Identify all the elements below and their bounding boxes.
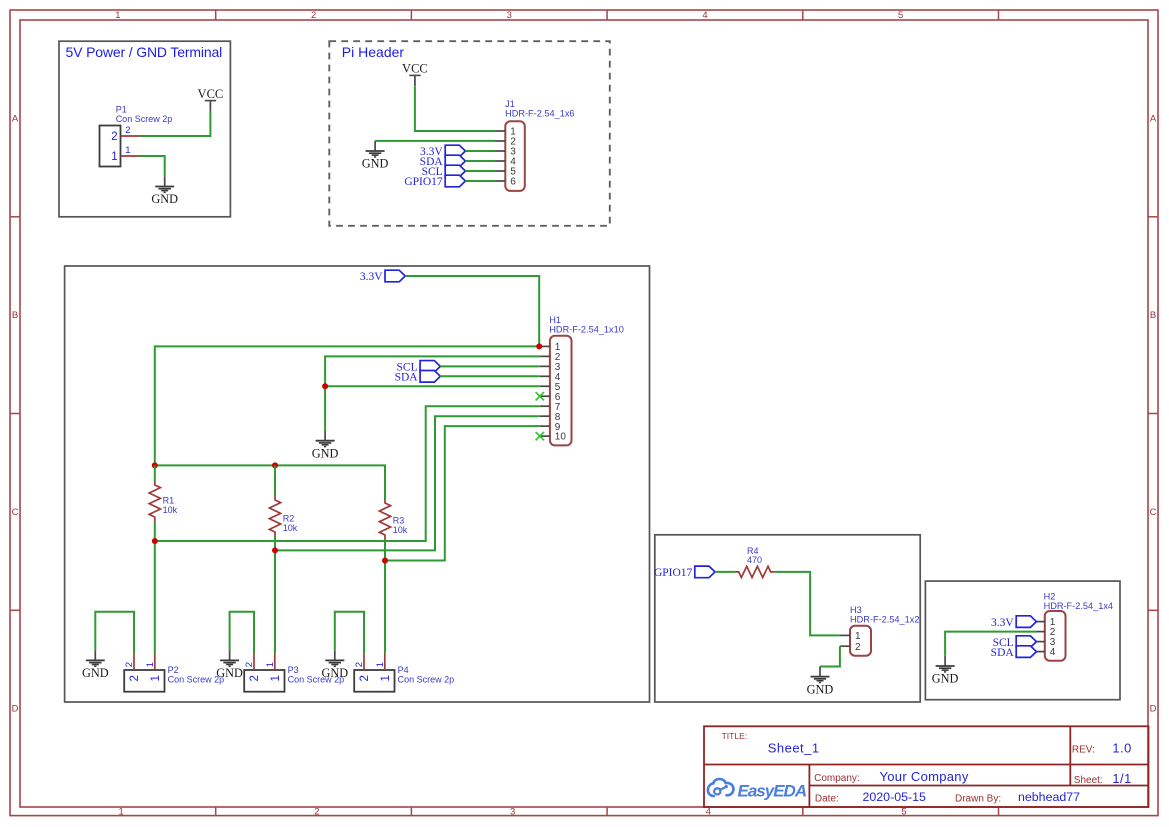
svg-text:A: A <box>12 114 19 125</box>
svg-text:2: 2 <box>125 125 130 136</box>
svg-text:R2: R2 <box>283 514 295 524</box>
svg-text:Your Company: Your Company <box>880 769 969 784</box>
svg-text:HDR-F-2.54_1x6: HDR-F-2.54_1x6 <box>505 109 574 119</box>
ground (P3) <box>216 650 243 680</box>
ground (P4) <box>321 650 348 680</box>
svg-text:GND: GND <box>82 666 109 680</box>
svg-text:2: 2 <box>124 662 135 667</box>
svg-text:P3: P3 <box>288 665 299 675</box>
header H3 HDR-F-2.54_1x2 <box>840 605 920 656</box>
svg-text:VCC: VCC <box>198 87 224 101</box>
svg-text:1: 1 <box>119 806 124 817</box>
svg-text:2: 2 <box>244 662 255 667</box>
svg-text:HDR-F-2.54_1x10: HDR-F-2.54_1x10 <box>549 325 624 335</box>
resistor R3 10k <box>379 499 407 539</box>
svg-text:Pi Header: Pi Header <box>342 44 405 60</box>
svg-text:3.3V: 3.3V <box>991 617 1014 629</box>
wire R1 to P2 pin1 <box>154 521 156 653</box>
svg-text:Con Screw 2p: Con Screw 2p <box>116 114 173 124</box>
junction H1 pin1 / 3.3V <box>536 343 542 349</box>
svg-text:C: C <box>12 507 19 518</box>
svg-text:TITLE:: TITLE: <box>722 731 748 741</box>
svg-text:B: B <box>12 310 18 321</box>
section box: GPIO17 / H3 <box>655 535 920 702</box>
svg-text:nebhead77: nebhead77 <box>1018 790 1080 804</box>
wire H1 pin5 net <box>325 385 540 387</box>
netflag 3.3V (H2 box) <box>991 616 1036 629</box>
svg-text:1.0: 1.0 <box>1112 740 1131 755</box>
wire 3.3V top rail <box>155 465 385 475</box>
resistor R1 10k <box>149 481 177 521</box>
svg-text:GND: GND <box>151 192 178 206</box>
wire SCL to H1 pin3 <box>440 365 540 367</box>
connector P1 Con Screw 2p <box>100 105 173 167</box>
connector P3 Con Screw 2p <box>244 653 344 692</box>
wire H3 pin2 to GND <box>820 646 840 666</box>
wire H1 pin2 to GND <box>325 356 540 430</box>
svg-text:1: 1 <box>375 662 386 667</box>
header H2 HDR-F-2.54_1x4 <box>1037 592 1114 661</box>
power flag VCC (5V box) <box>198 87 224 112</box>
resistor R2 10k <box>269 496 297 536</box>
title block texts <box>722 731 1132 804</box>
svg-text:P2: P2 <box>168 665 179 675</box>
svg-text:2: 2 <box>359 675 371 681</box>
svg-text:GND: GND <box>807 682 834 696</box>
netflag GPIO17 (Pi Header) <box>404 175 465 188</box>
svg-text:1: 1 <box>150 675 162 681</box>
svg-text:3.3V: 3.3V <box>360 271 383 283</box>
wire R4 to H3 pin1 <box>775 572 840 636</box>
svg-text:2020-05-15: 2020-05-15 <box>863 790 926 804</box>
svg-text:C: C <box>1150 507 1157 518</box>
junction R1 bottom <box>152 538 158 544</box>
junction rail/R2 <box>272 462 278 468</box>
wire R2 to P3 pin1 <box>274 536 276 653</box>
svg-text:H3: H3 <box>850 605 862 615</box>
wire P1 pin1 to GND <box>140 156 165 176</box>
wire 3.3V to H1 pin1 <box>405 276 539 346</box>
svg-text:SDA: SDA <box>991 647 1015 659</box>
wire VCC to J1 pin1 <box>415 86 495 131</box>
netflag SDA (Pi Header) <box>420 155 466 168</box>
svg-text:Con Screw 2p: Con Screw 2p <box>398 675 455 685</box>
svg-text:5: 5 <box>901 806 906 817</box>
netflag SCL (Pi Header) <box>422 165 466 178</box>
svg-text:GND: GND <box>312 446 339 460</box>
svg-text:Company:: Company: <box>814 773 860 784</box>
ground (Pi Header) <box>362 141 389 171</box>
svg-text:3: 3 <box>507 10 512 21</box>
netflag GPIO17 (H3 box) <box>654 566 715 579</box>
netflag 3.3V (Pi Header) <box>420 145 465 158</box>
svg-text:HDR-F-2.54_1x2: HDR-F-2.54_1x2 <box>850 614 919 624</box>
svg-text:1/1: 1/1 <box>1112 771 1131 786</box>
ground (5V box) <box>151 176 178 206</box>
svg-text:1: 1 <box>270 675 282 681</box>
title block <box>704 726 1149 807</box>
junction R2 bottom <box>272 547 278 553</box>
svg-text:B: B <box>1150 310 1156 321</box>
connector P4 Con Screw 2p <box>354 653 454 692</box>
wire rail to R2 <box>274 465 276 496</box>
svg-text:2: 2 <box>311 10 316 21</box>
wire H1 pin7 to R1 bottom rail <box>155 406 540 541</box>
svg-text:SDA: SDA <box>395 372 419 384</box>
svg-text:H2: H2 <box>1044 592 1056 602</box>
wire H1 pin1 net <box>155 346 540 465</box>
netflag SCL (main box) <box>397 361 441 374</box>
header J1 HDR-F-2.54_1x6 <box>495 99 575 191</box>
section box: 5V Power / GND Terminal <box>59 41 230 217</box>
wire SCL to J1 <box>465 170 495 172</box>
svg-text:H1: H1 <box>549 315 561 325</box>
power flag VCC (Pi Header) <box>402 62 428 87</box>
wire SDA to H1 pin4 <box>440 375 540 377</box>
svg-text:6: 6 <box>510 177 516 188</box>
svg-text:GND: GND <box>321 666 348 680</box>
wire H1 pin8 to R2 bottom rail <box>275 416 540 550</box>
wire GPIO17 to J1 <box>465 180 495 182</box>
wire P1 pin2 to VCC <box>140 111 210 136</box>
svg-text:2: 2 <box>129 675 141 681</box>
header H1 HDR-F-2.54_1x10 <box>540 315 624 445</box>
svg-text:Date:: Date: <box>815 793 839 804</box>
ground (H2 box) <box>932 656 959 686</box>
svg-text:5V Power / GND Terminal: 5V Power / GND Terminal <box>66 44 223 60</box>
ground (main box) <box>312 431 339 461</box>
svg-text:P1: P1 <box>116 105 127 115</box>
section box: Pi Header (dashed) <box>329 41 610 226</box>
svg-text:GPIO17: GPIO17 <box>654 567 693 579</box>
svg-text:A: A <box>1150 114 1157 125</box>
svg-text:HDR-F-2.54_1x4: HDR-F-2.54_1x4 <box>1044 601 1113 611</box>
svg-text:1: 1 <box>145 662 156 667</box>
wire P2 pin2 to GND <box>95 612 134 653</box>
junction rail/R1 <box>152 462 158 468</box>
svg-text:D: D <box>12 704 19 715</box>
svg-text:GND: GND <box>216 666 243 680</box>
junction pin5 on pin2 net <box>322 383 328 389</box>
svg-text:5: 5 <box>898 10 903 21</box>
svg-text:Sheet:: Sheet: <box>1074 775 1103 786</box>
wire rail to R3 <box>384 465 386 499</box>
svg-text:Sheet_1: Sheet_1 <box>768 741 820 756</box>
section box: main resistor/header area <box>65 266 650 702</box>
netflag 3.3V (main box) <box>360 270 405 283</box>
svg-text:10: 10 <box>555 432 567 443</box>
netflag SCL (H2 box) <box>993 636 1037 649</box>
ground (P2) <box>82 650 109 680</box>
svg-text:2: 2 <box>111 131 117 143</box>
EasyEDA logo <box>708 779 807 800</box>
svg-text:D: D <box>1150 704 1157 715</box>
svg-text:R1: R1 <box>163 496 175 506</box>
wire rail to R1 <box>154 465 156 481</box>
connector P2 Con Screw 2p <box>124 653 224 692</box>
svg-text:1: 1 <box>115 10 120 21</box>
svg-text:R3: R3 <box>393 516 405 526</box>
wire H1 pin9 to R3 bottom rail <box>385 426 540 560</box>
svg-text:2: 2 <box>354 662 365 667</box>
junction R3 bottom <box>382 558 388 564</box>
svg-text:10k: 10k <box>393 525 408 535</box>
svg-text:1: 1 <box>380 675 392 681</box>
svg-text:2: 2 <box>314 806 319 817</box>
svg-text:2: 2 <box>249 675 261 681</box>
svg-text:REV:: REV: <box>1072 744 1095 755</box>
svg-text:470: 470 <box>747 555 762 565</box>
wire GND to J1 pin2 <box>375 140 495 142</box>
ground (H3 box) <box>807 667 834 697</box>
no-connect flag H1 pin10 <box>536 432 544 440</box>
svg-text:1: 1 <box>855 631 861 642</box>
svg-text:J1: J1 <box>505 99 515 109</box>
wire 3.3V to J1 <box>465 150 495 152</box>
netflag SDA (main box) <box>395 371 441 384</box>
resistor R4 470 <box>735 546 775 577</box>
wire R3 to P4 pin1 <box>384 539 386 653</box>
svg-text:1: 1 <box>125 145 130 156</box>
svg-text:3: 3 <box>510 806 515 817</box>
svg-text:1: 1 <box>111 151 117 163</box>
svg-text:10k: 10k <box>283 523 298 533</box>
svg-text:1: 1 <box>265 662 276 667</box>
svg-text:GPIO17: GPIO17 <box>404 176 443 188</box>
svg-text:2: 2 <box>855 642 861 653</box>
wire H2 pin2 to GND <box>945 632 1036 656</box>
no-connect flag H1 pin6 <box>536 392 544 400</box>
wire SDA to J1 <box>465 160 495 162</box>
svg-text:10k: 10k <box>163 505 178 515</box>
svg-text:Drawn By:: Drawn By: <box>955 793 1001 804</box>
svg-text:GND: GND <box>362 157 389 171</box>
svg-text:EasyEDA: EasyEDA <box>738 781 807 800</box>
section box: H2 <box>925 581 1120 700</box>
wire GPIO17 to R4 <box>715 571 735 573</box>
svg-text:P4: P4 <box>398 665 409 675</box>
svg-text:VCC: VCC <box>402 62 428 76</box>
svg-text:GND: GND <box>932 672 959 686</box>
wire P3 pin2 to GND <box>230 612 254 653</box>
netflag SDA (H2 box) <box>991 646 1037 659</box>
svg-text:4: 4 <box>706 806 711 817</box>
svg-text:4: 4 <box>702 10 707 21</box>
svg-text:4: 4 <box>1050 647 1056 658</box>
wire P4 pin2 to GND <box>335 612 364 653</box>
